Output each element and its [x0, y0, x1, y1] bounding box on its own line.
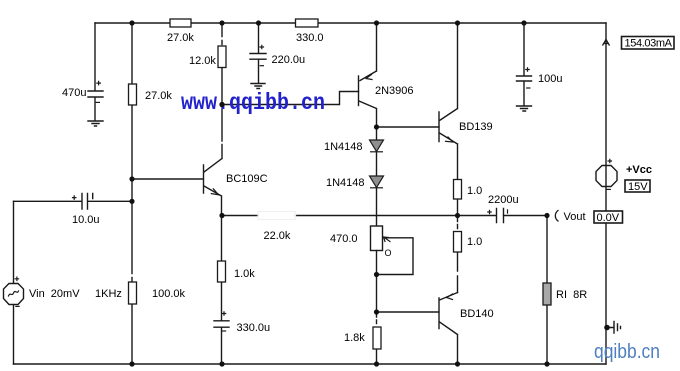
svg-text:1N4148: 1N4148 — [326, 177, 365, 189]
svg-text:1.0: 1.0 — [467, 236, 482, 248]
svg-text:154.03mA: 154.03mA — [625, 38, 673, 50]
svg-text:Vin 20mV: Vin 20mV — [29, 288, 80, 300]
svg-text:12.0k: 12.0k — [189, 55, 216, 67]
svg-text:Vout: Vout — [564, 211, 586, 223]
svg-text:1.0k: 1.0k — [234, 268, 255, 280]
svg-text:470.0: 470.0 — [330, 233, 358, 245]
svg-text:100u: 100u — [538, 73, 562, 85]
svg-text:27.0k: 27.0k — [167, 32, 194, 44]
svg-text:1KHz: 1KHz — [95, 288, 122, 300]
svg-text:BD140: BD140 — [460, 308, 494, 320]
svg-text:1.8k: 1.8k — [344, 332, 365, 344]
svg-text:qqibb.cn: qqibb.cn — [594, 341, 660, 363]
svg-text:10.0u: 10.0u — [72, 214, 100, 226]
svg-text:330.0u: 330.0u — [237, 322, 271, 334]
svg-text:+Vcc: +Vcc — [626, 164, 652, 176]
svg-text:www.qqibb.cn: www.qqibb.cn — [181, 90, 325, 116]
svg-text:2200u: 2200u — [488, 194, 519, 206]
svg-text:470u: 470u — [62, 87, 86, 99]
svg-text:2N3906: 2N3906 — [375, 85, 414, 97]
svg-text:330.0: 330.0 — [296, 32, 324, 44]
svg-text:15V: 15V — [628, 181, 648, 193]
svg-text:220.0u: 220.0u — [272, 54, 306, 66]
svg-text:1N4148: 1N4148 — [324, 141, 363, 153]
svg-text:O: O — [385, 248, 392, 258]
svg-text:22.0k: 22.0k — [264, 230, 291, 242]
svg-text:BC109C: BC109C — [226, 173, 268, 185]
svg-text:BD139: BD139 — [459, 121, 493, 133]
svg-text:1.0: 1.0 — [467, 185, 482, 197]
svg-text:100.0k: 100.0k — [152, 288, 186, 300]
svg-text:RI 8R: RI 8R — [556, 289, 587, 301]
svg-text:27.0k: 27.0k — [145, 90, 172, 102]
svg-text:0.0V: 0.0V — [597, 212, 620, 224]
